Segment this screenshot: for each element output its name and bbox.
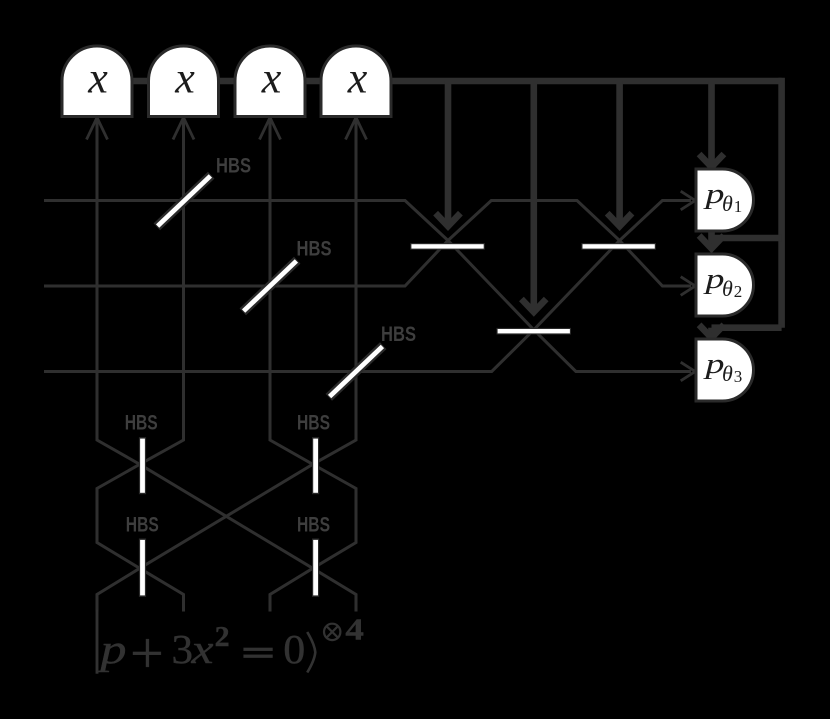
svg-text:3: 3 xyxy=(172,626,194,672)
svg-text:HBS: HBS xyxy=(297,238,332,261)
svg-text:HBS: HBS xyxy=(297,412,330,435)
svg-text:θ: θ xyxy=(722,276,733,301)
svg-text:4: 4 xyxy=(345,612,364,647)
x detector 2 xyxy=(149,46,219,117)
svg-text:HBS: HBS xyxy=(126,514,159,537)
svg-text:0: 0 xyxy=(283,626,305,672)
svg-text:HBS: HBS xyxy=(216,155,251,178)
p_theta2 detector xyxy=(696,254,754,316)
beam splitter HBS1 (diagonal bar on vertical 2 / row 1) xyxy=(154,172,215,230)
feedforward drop 1 into BS node C1 xyxy=(436,81,461,226)
mode wire 2 (x=183.5 vertical down into source stage) xyxy=(97,118,184,612)
arrow into p_theta3 xyxy=(681,362,696,381)
svg-text:x: x xyxy=(347,54,368,103)
arrow into x detector 2 xyxy=(173,118,194,140)
svg-text:p: p xyxy=(97,626,127,672)
wire row2 through BS C1 and C2 to p_theta2 xyxy=(44,201,691,287)
beam splitter HBS3 (diagonal bar on vertical 4 / row 3) xyxy=(326,342,387,400)
x detector 3 xyxy=(235,46,305,117)
feedforward drop 4 into detector p_theta1 xyxy=(699,81,724,167)
feedforward drop 2 into BS node C3 xyxy=(521,81,546,312)
p_theta1 detector xyxy=(696,169,753,231)
feedforward link p_theta1 to p_theta2 xyxy=(699,231,782,249)
arrow into x detector 1 xyxy=(87,118,108,140)
source beam splitter bar stage2 right xyxy=(312,539,319,597)
x detector 4 xyxy=(321,46,391,117)
svg-text:2: 2 xyxy=(734,282,743,301)
source beam splitter bar stage1 left xyxy=(139,437,146,494)
ket bar xyxy=(96,610,98,674)
svg-text:3: 3 xyxy=(734,367,743,386)
mode wire 4 (x=356 vertical down into source stage) xyxy=(270,118,356,612)
svg-text:1: 1 xyxy=(734,197,743,216)
tensor product symbol xyxy=(324,624,340,640)
svg-text:HBS: HBS xyxy=(381,323,416,346)
BS bar at node C1 xyxy=(410,243,485,250)
svg-text:HBS: HBS xyxy=(125,412,158,435)
svg-text:θ: θ xyxy=(722,191,733,216)
wire row1 through BS C1 and C3 to p_theta3 xyxy=(44,201,691,372)
svg-text:HBS: HBS xyxy=(297,514,330,537)
BS bar at node C2 xyxy=(581,243,656,250)
feedforward right rail (thick vertical at right) xyxy=(778,78,785,328)
arrow into x detector 3 xyxy=(260,118,281,140)
wire row3 through BS C3 and C2 to p_theta1 xyxy=(44,201,691,372)
arrow into x detector 4 xyxy=(346,118,367,140)
svg-text:θ: θ xyxy=(722,361,733,386)
x detector 1 xyxy=(62,46,132,117)
source beam splitter bar stage1 right xyxy=(312,437,319,494)
arrow into p_theta2 xyxy=(681,277,696,296)
BS bar at node C3 xyxy=(497,328,572,335)
mode wire 1 (x=97 vertical down into source stage) xyxy=(97,118,356,612)
feedforward link rail to p_theta3 xyxy=(699,325,782,338)
mode wire 3 (x=270 vertical down into source stage) xyxy=(97,118,313,612)
svg-text:x: x xyxy=(190,626,213,672)
ket angle bracket xyxy=(307,632,315,673)
source beam splitter bar stage2 left xyxy=(139,539,146,597)
svg-text:x: x xyxy=(87,54,108,103)
svg-text:2: 2 xyxy=(215,622,230,653)
arrow into p_theta1 xyxy=(681,191,696,210)
feedforward bus (thick top horizontal from x detectors to right rail) xyxy=(97,78,782,85)
feedforward drop 3 into BS node C2 xyxy=(607,81,632,226)
beam splitter HBS2 (diagonal bar on vertical 3 / row 2) xyxy=(240,257,301,315)
p_theta3 detector xyxy=(696,339,754,401)
svg-text:x: x xyxy=(174,54,195,103)
input state label |p+3x^2=0> tensor 4 xyxy=(96,610,364,674)
svg-text:x: x xyxy=(261,54,282,103)
